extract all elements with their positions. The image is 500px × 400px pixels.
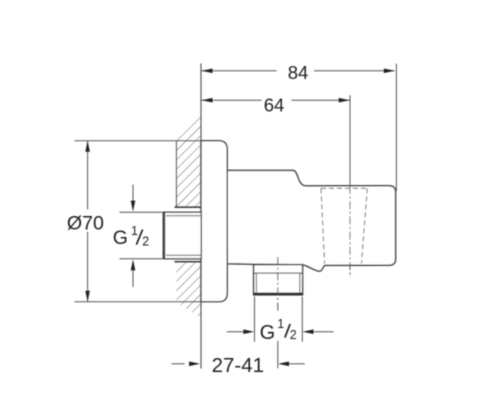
svg-text:G: G	[260, 322, 276, 344]
svg-text:2: 2	[142, 234, 149, 248]
svg-text:27-41: 27-41	[212, 354, 264, 377]
svg-text:64: 64	[264, 94, 285, 115]
svg-text:2: 2	[290, 328, 297, 342]
svg-text:G: G	[113, 227, 128, 249]
svg-text:1: 1	[131, 224, 138, 238]
svg-text:1: 1	[277, 317, 284, 331]
svg-text:84: 84	[288, 62, 309, 83]
svg-text:Ø70: Ø70	[67, 212, 104, 234]
